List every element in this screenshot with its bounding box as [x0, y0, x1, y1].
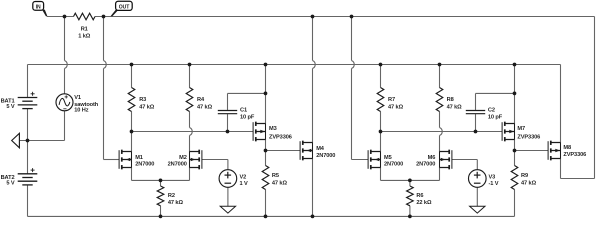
svg-text:2N7000: 2N7000 [168, 161, 187, 167]
svg-text:M4: M4 [316, 146, 325, 152]
svg-text:47 kΩ: 47 kΩ [168, 200, 184, 206]
svg-text:47 kΩ: 47 kΩ [139, 104, 155, 110]
svg-text:47 kΩ: 47 kΩ [197, 104, 213, 110]
svg-text:47 kΩ: 47 kΩ [388, 104, 404, 110]
svg-text:R7: R7 [388, 97, 395, 103]
svg-text:47 kΩ: 47 kΩ [447, 104, 463, 110]
svg-text:R2: R2 [168, 193, 175, 199]
svg-text:R6: R6 [416, 193, 423, 199]
svg-text:M7: M7 [517, 126, 525, 132]
svg-text:R1: R1 [81, 27, 88, 33]
svg-text:22 kΩ: 22 kΩ [416, 200, 432, 206]
svg-text:5 V: 5 V [6, 104, 15, 110]
svg-text:10 Hz: 10 Hz [74, 107, 89, 113]
svg-text:5 V: 5 V [6, 181, 15, 187]
svg-text:ZVP3306: ZVP3306 [517, 135, 540, 141]
svg-text:1 kΩ: 1 kΩ [78, 33, 91, 39]
svg-text:V2: V2 [240, 174, 247, 180]
svg-text:C1: C1 [240, 108, 247, 114]
svg-text:C2: C2 [488, 108, 495, 114]
svg-text:1 V: 1 V [240, 181, 249, 187]
svg-text:OUT: OUT [119, 4, 130, 10]
svg-text:M1: M1 [135, 155, 143, 161]
svg-text:47 kΩ: 47 kΩ [272, 180, 288, 186]
svg-text:ZVP3306: ZVP3306 [269, 135, 292, 141]
svg-text:2N7000: 2N7000 [135, 161, 154, 167]
svg-text:M3: M3 [269, 126, 277, 132]
svg-text:2N7000: 2N7000 [316, 153, 335, 159]
svg-text:R9: R9 [521, 173, 528, 179]
svg-text:M5: M5 [384, 155, 392, 161]
svg-text:M6: M6 [428, 155, 436, 161]
svg-text:R4: R4 [197, 97, 205, 103]
svg-text:IN: IN [36, 4, 41, 10]
svg-text:2N7000: 2N7000 [416, 161, 435, 167]
svg-text:V1: V1 [74, 95, 81, 101]
svg-text:V3: V3 [489, 174, 496, 180]
svg-text:R3: R3 [139, 97, 146, 103]
svg-text:R8: R8 [447, 97, 454, 103]
svg-text:ZVP3306: ZVP3306 [563, 152, 586, 158]
svg-text:47 kΩ: 47 kΩ [521, 180, 537, 186]
svg-text:2N7000: 2N7000 [384, 161, 403, 167]
svg-text:R5: R5 [272, 173, 279, 179]
svg-text:-1 V: -1 V [489, 181, 499, 187]
svg-text:M2: M2 [179, 155, 187, 161]
svg-text:10 pF: 10 pF [240, 115, 255, 121]
svg-text:M8: M8 [563, 145, 571, 151]
svg-text:10 pF: 10 pF [488, 115, 503, 121]
